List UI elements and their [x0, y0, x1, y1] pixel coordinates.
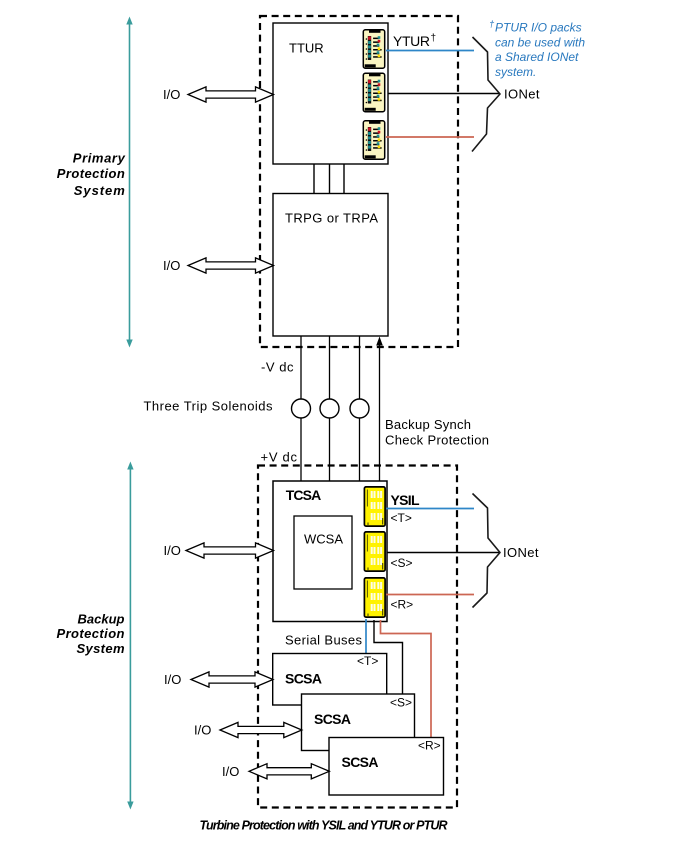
svg-text:Backup Synch: Backup Synch	[385, 417, 471, 432]
svg-text:<T>: <T>	[391, 511, 412, 525]
io arrow SCSA1	[191, 672, 273, 687]
svg-text:Three Trip Solenoids: Three Trip Solenoids	[144, 399, 274, 414]
label IONet (bottom)	[503, 545, 539, 560]
label YTUR	[393, 33, 436, 49]
label I/O SCSA1	[164, 672, 181, 687]
io pack YTUR S	[363, 73, 384, 111]
svg-text:I/O: I/O	[163, 258, 180, 273]
io arrow SCSA3	[249, 764, 329, 779]
io arrow TCSA	[186, 543, 274, 558]
wire IONet blue (top)	[386, 50, 474, 52]
svg-text:Primary: Primary	[73, 150, 126, 165]
wire solenoid 2 upper	[329, 336, 331, 399]
io arrow SCSA2	[220, 722, 302, 737]
svg-text:WCSA: WCSA	[304, 532, 343, 547]
label S port SCSA2	[390, 696, 412, 710]
label I/O TTUR	[163, 87, 180, 102]
caption Turbine Protection	[200, 819, 448, 833]
svg-text:<R>: <R>	[391, 598, 414, 612]
svg-text:a Shared IONet: a Shared IONet	[495, 50, 579, 64]
svg-text:†: †	[431, 33, 437, 44]
label R port	[391, 598, 414, 612]
svg-text:system.: system.	[495, 65, 536, 79]
backup side arrow (teal)	[127, 462, 133, 810]
wire solenoid 1 lower	[300, 418, 302, 481]
wire IONet black (top)	[388, 93, 499, 95]
svg-text:I/O: I/O	[163, 87, 180, 102]
svg-text:Protection: Protection	[57, 166, 125, 181]
label I/O SCSA2	[194, 723, 211, 738]
svg-text:Protection: Protection	[57, 626, 125, 641]
block SCSA 2	[302, 694, 415, 751]
svg-text:Serial Buses: Serial Buses	[285, 633, 363, 648]
wire IONet black (bottom)	[387, 552, 499, 554]
label T port	[391, 511, 412, 525]
wire solenoid 1 upper	[300, 336, 302, 399]
svg-text:TCSA: TCSA	[286, 487, 322, 503]
io arrow TRPG	[188, 258, 274, 273]
brace IONet (bottom)	[473, 494, 501, 608]
label Backup Protection System	[57, 612, 125, 657]
block WCSA	[294, 516, 352, 589]
svg-text:System: System	[77, 641, 125, 656]
svg-text:<S>: <S>	[391, 556, 413, 570]
svg-text:Turbine Protection with YSIL a: Turbine Protection with YSIL and YTUR or…	[200, 819, 448, 833]
svg-text:SCSA: SCSA	[342, 754, 379, 770]
primary side arrow (teal)	[126, 17, 132, 348]
svg-text:YTUR: YTUR	[393, 33, 430, 49]
io pack YSIL R	[364, 578, 385, 617]
wire IONet red (bottom)	[386, 594, 474, 596]
block TTUR	[273, 23, 388, 164]
label Serial Buses	[285, 633, 363, 648]
block SCSA 3	[329, 738, 444, 796]
wire solenoid 3 upper	[359, 336, 361, 399]
brace IONet (top)	[472, 37, 500, 152]
wire IONet red (top)	[386, 136, 474, 138]
svg-text:Backup: Backup	[78, 612, 125, 627]
io pack YTUR T	[363, 30, 384, 68]
wire TTUR to TRPG bus 3	[343, 164, 345, 194]
io pack YTUR R	[363, 121, 384, 159]
note PTUR blue text	[489, 19, 585, 79]
label IONet (top)	[504, 87, 540, 102]
svg-text:<S>: <S>	[390, 696, 412, 710]
wire IONet blue (bottom)	[386, 508, 474, 510]
label T port SCSA1	[357, 654, 378, 668]
wire TTUR to TRPG bus 1	[313, 164, 315, 194]
svg-text:-V dc: -V dc	[261, 360, 294, 375]
svg-text:Check Protection: Check Protection	[385, 433, 489, 448]
wire TTUR to TRPG bus 2	[329, 164, 331, 194]
wire serial red	[381, 620, 432, 738]
svg-text:TRPG or TRPA: TRPG or TRPA	[285, 211, 378, 226]
svg-text:can be used with: can be used with	[495, 35, 585, 49]
label I/O TCSA	[164, 543, 181, 558]
label -V dc	[261, 360, 294, 375]
svg-text:<R>: <R>	[418, 739, 441, 753]
wire solenoid 3 lower	[359, 418, 361, 481]
wire solenoid 2 lower	[329, 418, 331, 481]
label Primary Protection System	[57, 150, 126, 198]
label YSIL	[391, 492, 420, 508]
svg-text:System: System	[74, 183, 125, 198]
svg-text:TTUR: TTUR	[289, 41, 324, 56]
svg-text:SCSA: SCSA	[285, 671, 322, 687]
io pack YSIL T	[364, 487, 385, 526]
svg-text:I/O: I/O	[222, 764, 239, 779]
block SCSA 1	[273, 654, 387, 706]
svg-text:I/O: I/O	[194, 723, 211, 738]
solenoid circle 3	[350, 399, 369, 418]
label S port	[391, 556, 413, 570]
wire serial blue	[365, 619, 367, 654]
block TCSA	[273, 481, 387, 622]
solenoid circle 2	[320, 399, 339, 418]
io pack YSIL S	[364, 532, 385, 571]
label Three Trip Solenoids	[144, 399, 274, 414]
svg-text:I/O: I/O	[164, 543, 181, 558]
label Backup Synch Check Protection	[385, 417, 489, 448]
svg-text:+V dc: +V dc	[261, 450, 298, 465]
svg-text:<T>: <T>	[357, 654, 378, 668]
label +V dc	[261, 450, 298, 465]
svg-text:I/O: I/O	[164, 672, 181, 687]
label I/O TRPG	[163, 258, 180, 273]
solenoid circle 1	[292, 399, 311, 418]
wire backup synch with arrow	[376, 337, 383, 482]
block TRPG or TRPA	[273, 194, 388, 337]
io arrow TTUR	[188, 87, 274, 102]
wire serial black	[374, 620, 403, 694]
svg-text:IONet: IONet	[503, 545, 539, 560]
primary protection system dashed enclosure	[260, 16, 458, 347]
backup protection system dashed enclosure	[258, 466, 457, 808]
svg-text:SCSA: SCSA	[314, 711, 351, 727]
label R port SCSA3	[418, 739, 441, 753]
svg-text:YSIL: YSIL	[391, 492, 420, 508]
svg-text:PTUR I/O packs: PTUR I/O packs	[495, 21, 582, 35]
svg-text:IONet: IONet	[504, 87, 540, 102]
label I/O SCSA3	[222, 764, 239, 779]
